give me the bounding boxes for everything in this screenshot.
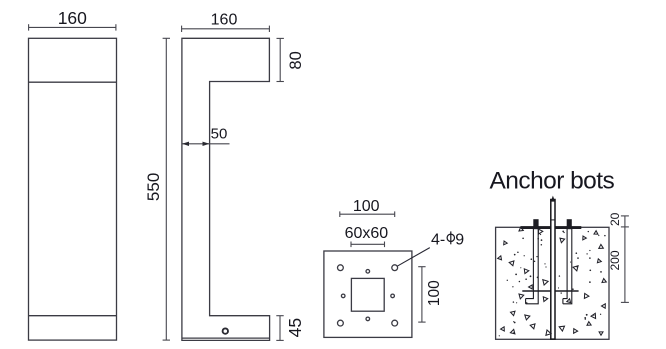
front view head seam line xyxy=(29,81,117,83)
svg-text:100: 100 xyxy=(353,198,380,215)
dimension 100 plate horizontal xyxy=(340,198,395,217)
right J-bolt shaft and hook xyxy=(563,229,572,304)
svg-text:4-: 4- xyxy=(431,232,445,249)
anchor plate bar xyxy=(521,226,582,229)
svg-text:80: 80 xyxy=(287,51,305,69)
right stud threaded top xyxy=(567,219,572,229)
corner bolt hole top-right xyxy=(392,265,398,271)
dimension 100 plate vertical xyxy=(418,267,443,322)
left J-bolt shaft and hook xyxy=(526,229,539,304)
mid hole left xyxy=(341,294,345,298)
central ground rod xyxy=(551,196,555,340)
front view base seam line xyxy=(29,315,117,317)
dimension 160 front view width xyxy=(29,8,116,31)
front view body outline xyxy=(29,38,117,340)
corner bolt hole bottom-right xyxy=(392,320,398,326)
washer line xyxy=(522,290,578,292)
svg-text:Anchor bots: Anchor bots xyxy=(490,167,615,194)
svg-text:160: 160 xyxy=(211,11,238,28)
svg-text:9: 9 xyxy=(455,232,464,249)
center square cutout 60x60 xyxy=(351,278,384,311)
mid hole top xyxy=(366,270,370,274)
svg-text:50: 50 xyxy=(211,126,228,143)
dimension 60x60 cutout size xyxy=(345,225,389,247)
base plate outline xyxy=(324,251,412,337)
svg-text:160: 160 xyxy=(58,8,87,28)
side profile outline xyxy=(182,38,270,340)
left stud threaded top xyxy=(533,219,538,229)
corner bolt hole bottom-left xyxy=(338,320,344,326)
dimension 160 side view width xyxy=(182,11,270,32)
svg-text:20: 20 xyxy=(608,212,622,226)
svg-text:60x60: 60x60 xyxy=(345,225,389,242)
label 4-phi9 with leader xyxy=(397,231,464,266)
dimension 20 stud projection xyxy=(608,212,629,227)
side profile base seam xyxy=(182,337,270,339)
svg-text:200: 200 xyxy=(608,250,622,270)
dimension 200 embedment depth xyxy=(608,227,629,303)
corner bolt hole top-left xyxy=(338,265,344,271)
dimension 80 top arm height xyxy=(277,38,306,81)
concrete aggregate triangles xyxy=(498,227,607,335)
dimension 50 wall thickness xyxy=(182,126,230,146)
mid hole right xyxy=(391,294,395,298)
dimension 550 overall height xyxy=(144,38,170,340)
concrete aggregate texture xyxy=(499,231,606,337)
concrete foundation block xyxy=(496,227,609,339)
base screw xyxy=(223,328,228,333)
mid hole bottom xyxy=(366,317,370,321)
dimension 45 base height xyxy=(276,316,305,341)
svg-text:100: 100 xyxy=(426,280,443,306)
svg-text:45: 45 xyxy=(285,318,305,337)
svg-text:550: 550 xyxy=(144,173,163,201)
